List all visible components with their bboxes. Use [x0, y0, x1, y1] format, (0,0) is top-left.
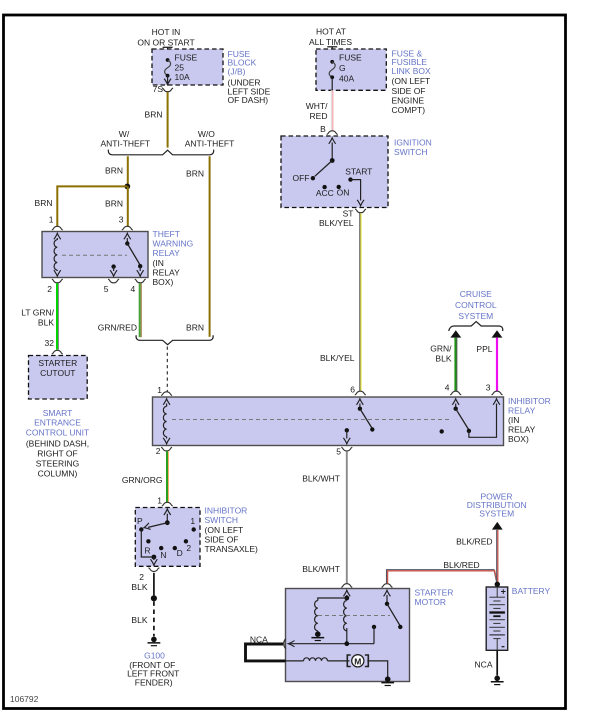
svg-text:5: 5 — [104, 284, 109, 294]
svg-text:STEERING: STEERING — [36, 459, 79, 469]
starter solenoid feed — [318, 590, 350, 600]
inhibitor relay switch 4-3 — [452, 399, 500, 438]
starter motor pin A — [341, 584, 352, 588]
starter inductor — [304, 658, 328, 661]
wire inductor to motor — [328, 660, 350, 662]
svg-text:3: 3 — [486, 382, 491, 392]
label POWER DISTRIBUTION SYSTEM — [467, 491, 527, 518]
svg-text:(J/B): (J/B) — [228, 66, 246, 76]
node W/ ANTI-THEFT — [101, 129, 151, 149]
wire PPL — [476, 338, 497, 392]
starter armature line — [286, 660, 304, 662]
svg-text:BLK/WHT: BLK/WHT — [302, 474, 340, 484]
wire BRN splice to theft relay pin 3 — [105, 186, 128, 226]
wire GRN/ORG — [122, 451, 169, 502]
starter case ground — [381, 676, 394, 686]
svg-text:3: 3 — [119, 214, 124, 224]
svg-text:STARTER: STARTER — [415, 587, 454, 597]
svg-text:N: N — [160, 550, 166, 560]
power distribution arrow — [492, 522, 503, 530]
contact ON — [337, 185, 350, 198]
splice S206 dot — [151, 595, 157, 601]
svg-text:40A: 40A — [339, 74, 354, 84]
svg-text:BLK: BLK — [131, 615, 147, 625]
svg-text:6: 6 — [350, 384, 355, 394]
svg-text:SIDE OF: SIDE OF — [205, 535, 239, 545]
svg-text:BLK/WHT: BLK/WHT — [302, 564, 340, 574]
svg-text:INHIBITOR: INHIBITOR — [205, 505, 248, 515]
svg-text:ANTI-THEFT: ANTI-THEFT — [185, 139, 235, 149]
ignition switch mechanism — [315, 138, 336, 177]
svg-text:ENTRANCE: ENTRANCE — [34, 418, 81, 428]
cruise arrow GRN/BLK — [450, 330, 461, 337]
svg-text:ANTI-THEFT: ANTI-THEFT — [101, 139, 151, 149]
contact D — [173, 546, 183, 558]
svg-text:+: + — [501, 586, 506, 596]
svg-text:IGNITION: IGNITION — [394, 137, 432, 147]
svg-text:1: 1 — [157, 496, 162, 506]
svg-text:2: 2 — [47, 284, 52, 294]
contact 2 — [184, 539, 192, 553]
ignition switch pin ST — [343, 208, 366, 218]
svg-text:SYSTEM: SYSTEM — [479, 509, 514, 519]
inhibitor relay pin 1 — [157, 385, 172, 395]
svg-text:CONTROL: CONTROL — [455, 300, 497, 310]
dashed wire to inhibitor relay pin 1 — [166, 347, 168, 392]
theft relay pin 4 — [130, 279, 145, 294]
theft relay pin 2 — [47, 279, 63, 294]
wire BLK/WHT — [302, 451, 347, 583]
inhibitor relay pin 5 contact — [343, 428, 350, 444]
cruise brace — [449, 322, 503, 331]
svg-text:SWITCH: SWITCH — [205, 515, 239, 525]
inhibitor relay pin 4 — [445, 382, 461, 395]
label THEFT WARNING RELAY (IN RELAY BOX) — [153, 229, 194, 287]
label FUSE BLOCK (J/B) (UNDER LEFT SIDE OF DASH) — [228, 49, 271, 105]
svg-text:BRN: BRN — [186, 169, 204, 179]
svg-text:RELAY: RELAY — [508, 425, 536, 435]
label SMART ENTRANCE CONTROL UNIT — [26, 408, 89, 478]
wire GRN/RED — [98, 283, 141, 337]
svg-text:BLK/YEL: BLK/YEL — [320, 353, 355, 363]
node HOT IN ON OR START — [137, 27, 194, 48]
contact START — [345, 166, 372, 181]
ignition switch box — [281, 136, 388, 208]
svg-text:FUSE: FUSE — [339, 52, 362, 62]
svg-text:G: G — [339, 63, 346, 73]
svg-text:PPL: PPL — [476, 344, 492, 354]
inhibitor relay coil — [163, 399, 170, 444]
contact N — [159, 546, 166, 560]
starter dashed link — [318, 615, 390, 617]
svg-text:CONTROL UNIT: CONTROL UNIT — [26, 427, 89, 437]
wire feed into fusible link box — [331, 47, 333, 62]
svg-text:(BEHIND DASH,: (BEHIND DASH, — [26, 439, 89, 449]
wire LT GRN/BLK — [21, 283, 58, 350]
inhibitor switch pin 1 — [157, 496, 173, 506]
split brace — [108, 150, 213, 155]
battery ground — [491, 676, 504, 686]
svg-text:W/: W/ — [119, 129, 130, 139]
wire P to pin 2 — [141, 530, 157, 566]
svg-text:2: 2 — [156, 446, 161, 456]
label FUSE & FUSIBLE LINK BOX (ON LEFT SIDE OF ENGINE COMPT) — [392, 48, 432, 115]
inhibitor switch pin 2 — [139, 568, 159, 582]
inhibitor relay pin 2 — [156, 446, 172, 456]
svg-text:ST: ST — [343, 208, 354, 218]
ground G100 — [148, 637, 161, 647]
svg-text:BRN: BRN — [145, 110, 163, 120]
svg-text:32: 32 — [45, 338, 55, 348]
svg-text:P: P — [137, 516, 143, 526]
svg-text:WHT/: WHT/ — [306, 101, 328, 111]
svg-text:M: M — [354, 656, 361, 666]
motor M symbol — [347, 655, 368, 667]
splice junction dot — [124, 184, 130, 190]
wire GRN/BLK — [430, 338, 457, 392]
battery cell plates — [489, 587, 505, 650]
wire NCA battery to ground — [475, 650, 498, 675]
svg-text:TRANSAXLE): TRANSAXLE) — [205, 544, 259, 554]
svg-text:BLK: BLK — [435, 353, 451, 363]
svg-text:NCA: NCA — [250, 634, 268, 644]
theft relay pin 1 — [49, 214, 63, 230]
svg-text:D: D — [177, 548, 183, 558]
svg-text:RELAY: RELAY — [153, 248, 181, 258]
svg-text:(IN: (IN — [508, 415, 519, 425]
contact ACC — [316, 185, 334, 198]
external NCA wire — [246, 634, 286, 661]
wire BRN left branch to splice — [105, 156, 128, 186]
svg-text:(ON LEFT: (ON LEFT — [205, 525, 244, 535]
theft relay pin 5 — [104, 279, 119, 294]
svg-text:GRN/: GRN/ — [430, 343, 452, 353]
svg-text:10A: 10A — [175, 72, 190, 82]
wire motor to ground — [367, 661, 387, 677]
wire BRN right branch W/O anti-theft — [186, 156, 210, 337]
node HOT AT ALL TIMES — [309, 27, 352, 48]
svg-text:COMPT): COMPT) — [392, 105, 426, 115]
label INHIBITOR SWITCH (ON LEFT SIDE OF TRANSAXLE) — [205, 505, 259, 554]
svg-text:LINK BOX: LINK BOX — [392, 66, 432, 76]
starter motor box — [286, 589, 410, 682]
svg-text:SMART: SMART — [43, 408, 73, 418]
svg-text:RELAY: RELAY — [153, 267, 181, 277]
svg-text:W/O: W/O — [198, 129, 215, 139]
wire WHT/RED — [306, 90, 333, 131]
svg-text:BLK/RED: BLK/RED — [456, 537, 492, 547]
inhibitor relay pin 5 — [336, 447, 352, 457]
svg-text:4: 4 — [445, 382, 450, 392]
inhibitor relay pin 6 — [350, 384, 366, 395]
wire BLK dashed to ground — [131, 601, 153, 636]
svg-text:BLK/YEL: BLK/YEL — [319, 218, 354, 228]
svg-text:(IN: (IN — [153, 258, 164, 268]
wire START to pin ST — [351, 180, 365, 206]
fuse 25 10A symbol — [164, 58, 171, 85]
connector bracket at starter edge — [284, 639, 286, 649]
fuse G 40A symbol — [329, 60, 335, 90]
label CRUISE CONTROL SYSTEM — [455, 289, 497, 321]
svg-text:RED: RED — [310, 111, 328, 121]
svg-text:COLUMN): COLUMN) — [38, 468, 78, 478]
label INHIBITOR RELAY (IN RELAY BOX) — [508, 396, 551, 444]
svg-text:ENGINE: ENGINE — [392, 95, 425, 105]
svg-text:FUSE: FUSE — [175, 53, 198, 63]
svg-text:SIDE OF: SIDE OF — [392, 86, 426, 96]
inhibitor relay floating contact — [440, 429, 444, 433]
wire BLK solid — [131, 573, 153, 596]
node W/O ANTI-THEFT — [185, 129, 235, 149]
wire BRN from fuse block — [145, 92, 168, 148]
theft warning relay box — [42, 232, 148, 278]
svg-text:OF DASH): OF DASH) — [228, 95, 269, 105]
theft relay pin 5 contact — [110, 264, 117, 276]
inhibitor switch box — [135, 508, 200, 567]
svg-text:SYSTEM: SYSTEM — [458, 311, 493, 321]
svg-text:MOTOR: MOTOR — [415, 597, 446, 607]
theft relay coil — [54, 233, 61, 276]
svg-text:BOX): BOX) — [153, 277, 174, 287]
starter cutout box — [29, 356, 88, 400]
svg-text:WARNING: WARNING — [153, 239, 194, 249]
starter coil 1 — [311, 601, 324, 642]
starter internal NCA line — [288, 641, 374, 647]
svg-text:INHIBITOR: INHIBITOR — [508, 396, 551, 406]
battery polarity - — [502, 646, 505, 647]
svg-text:START: START — [345, 166, 372, 176]
theft relay pin 3 — [119, 214, 133, 230]
battery box — [486, 587, 508, 650]
svg-text:BOX): BOX) — [508, 434, 529, 444]
svg-text:BRN: BRN — [186, 322, 204, 332]
contact P — [137, 516, 144, 532]
wire BRN splice to theft relay pin 1 — [35, 186, 128, 226]
inhibitor relay pin 3 — [486, 382, 503, 395]
svg-text:25: 25 — [175, 62, 185, 72]
wire BLK/RED battery to power distribution — [456, 530, 498, 584]
ignition switch pin B — [320, 124, 338, 135]
svg-text:GRN/ORG: GRN/ORG — [122, 475, 163, 485]
svg-text:THEFT: THEFT — [153, 229, 180, 239]
svg-text:1: 1 — [157, 385, 162, 395]
svg-text:NCA: NCA — [475, 659, 493, 669]
svg-text:OFF: OFF — [293, 173, 310, 183]
svg-text:R: R — [144, 546, 150, 556]
wire feed into fuse block — [167, 47, 169, 60]
svg-text:RIGHT OF: RIGHT OF — [37, 449, 77, 459]
fuse value label FUSE G 40A — [339, 52, 362, 83]
svg-text:G100: G100 — [144, 650, 165, 660]
svg-text:7S: 7S — [153, 84, 164, 94]
contact R — [144, 539, 150, 556]
svg-text:CUTOUT: CUTOUT — [40, 368, 75, 378]
contact 1 — [190, 516, 195, 532]
contact OFF — [293, 173, 316, 183]
svg-text:FENDER): FENDER) — [135, 677, 173, 687]
svg-text:CRUISE: CRUISE — [460, 289, 492, 299]
pin 32 — [45, 338, 63, 354]
wire BLK/YEL — [319, 213, 361, 391]
svg-text:1: 1 — [190, 516, 195, 526]
cruise arrow PPL — [492, 330, 503, 337]
svg-text:B: B — [320, 124, 326, 134]
starter switch — [384, 590, 403, 629]
svg-text:ON: ON — [337, 188, 350, 198]
inhibitor relay box — [153, 397, 504, 446]
inhibitor relay dashed link — [172, 419, 452, 421]
svg-text:SWITCH: SWITCH — [394, 147, 428, 157]
svg-text:ALL TIMES: ALL TIMES — [309, 37, 352, 47]
merge bracket — [136, 335, 213, 345]
svg-text:BLK/RED: BLK/RED — [443, 560, 479, 570]
svg-text:ACC: ACC — [316, 188, 334, 198]
theft relay switch — [124, 233, 144, 276]
svg-text:BLK: BLK — [38, 317, 54, 327]
wire BLK/RED starter to battery — [387, 560, 498, 584]
svg-text:BRN: BRN — [105, 199, 123, 209]
fuse block J/B box — [152, 49, 223, 85]
svg-text:ON OR START: ON OR START — [137, 38, 194, 48]
svg-text:BRN: BRN — [35, 198, 53, 208]
svg-text:1: 1 — [49, 214, 54, 224]
starter motor pin B — [382, 584, 393, 588]
svg-text:BLK: BLK — [131, 582, 147, 592]
pin 7S — [153, 84, 174, 94]
svg-text:(ON LEFT: (ON LEFT — [392, 76, 431, 86]
svg-text:106792: 106792 — [10, 694, 39, 704]
label G100 (FRONT OF LEFT FRONT FENDER) — [127, 650, 179, 687]
battery junction dot — [495, 582, 500, 587]
inhibitor relay switch 6-5 — [357, 399, 375, 432]
svg-text:GRN/RED: GRN/RED — [98, 322, 137, 332]
fuse value label FUSE 25 10A — [175, 53, 198, 82]
label IGNITION SWITCH — [394, 137, 432, 157]
starter switch contact — [372, 625, 376, 644]
svg-text:4: 4 — [130, 284, 135, 294]
svg-text:HOT AT: HOT AT — [316, 27, 346, 37]
svg-text:5: 5 — [336, 447, 341, 457]
svg-text:STARTER: STARTER — [38, 358, 77, 368]
svg-text:BATTERY: BATTERY — [512, 586, 551, 596]
starter coil 2 — [344, 601, 347, 644]
svg-text:2: 2 — [186, 543, 191, 553]
theft relay dashed link — [62, 254, 127, 256]
svg-text:BRN: BRN — [105, 165, 123, 175]
label STARTER MOTOR — [415, 587, 454, 607]
svg-text:HOT IN: HOT IN — [152, 27, 181, 37]
inhibitor switch selector — [143, 509, 171, 531]
svg-text:RELAY: RELAY — [508, 405, 536, 415]
fuse and fusible link box — [316, 49, 386, 90]
svg-text:LT GRN/: LT GRN/ — [21, 308, 54, 318]
svg-text:2: 2 — [139, 572, 144, 582]
